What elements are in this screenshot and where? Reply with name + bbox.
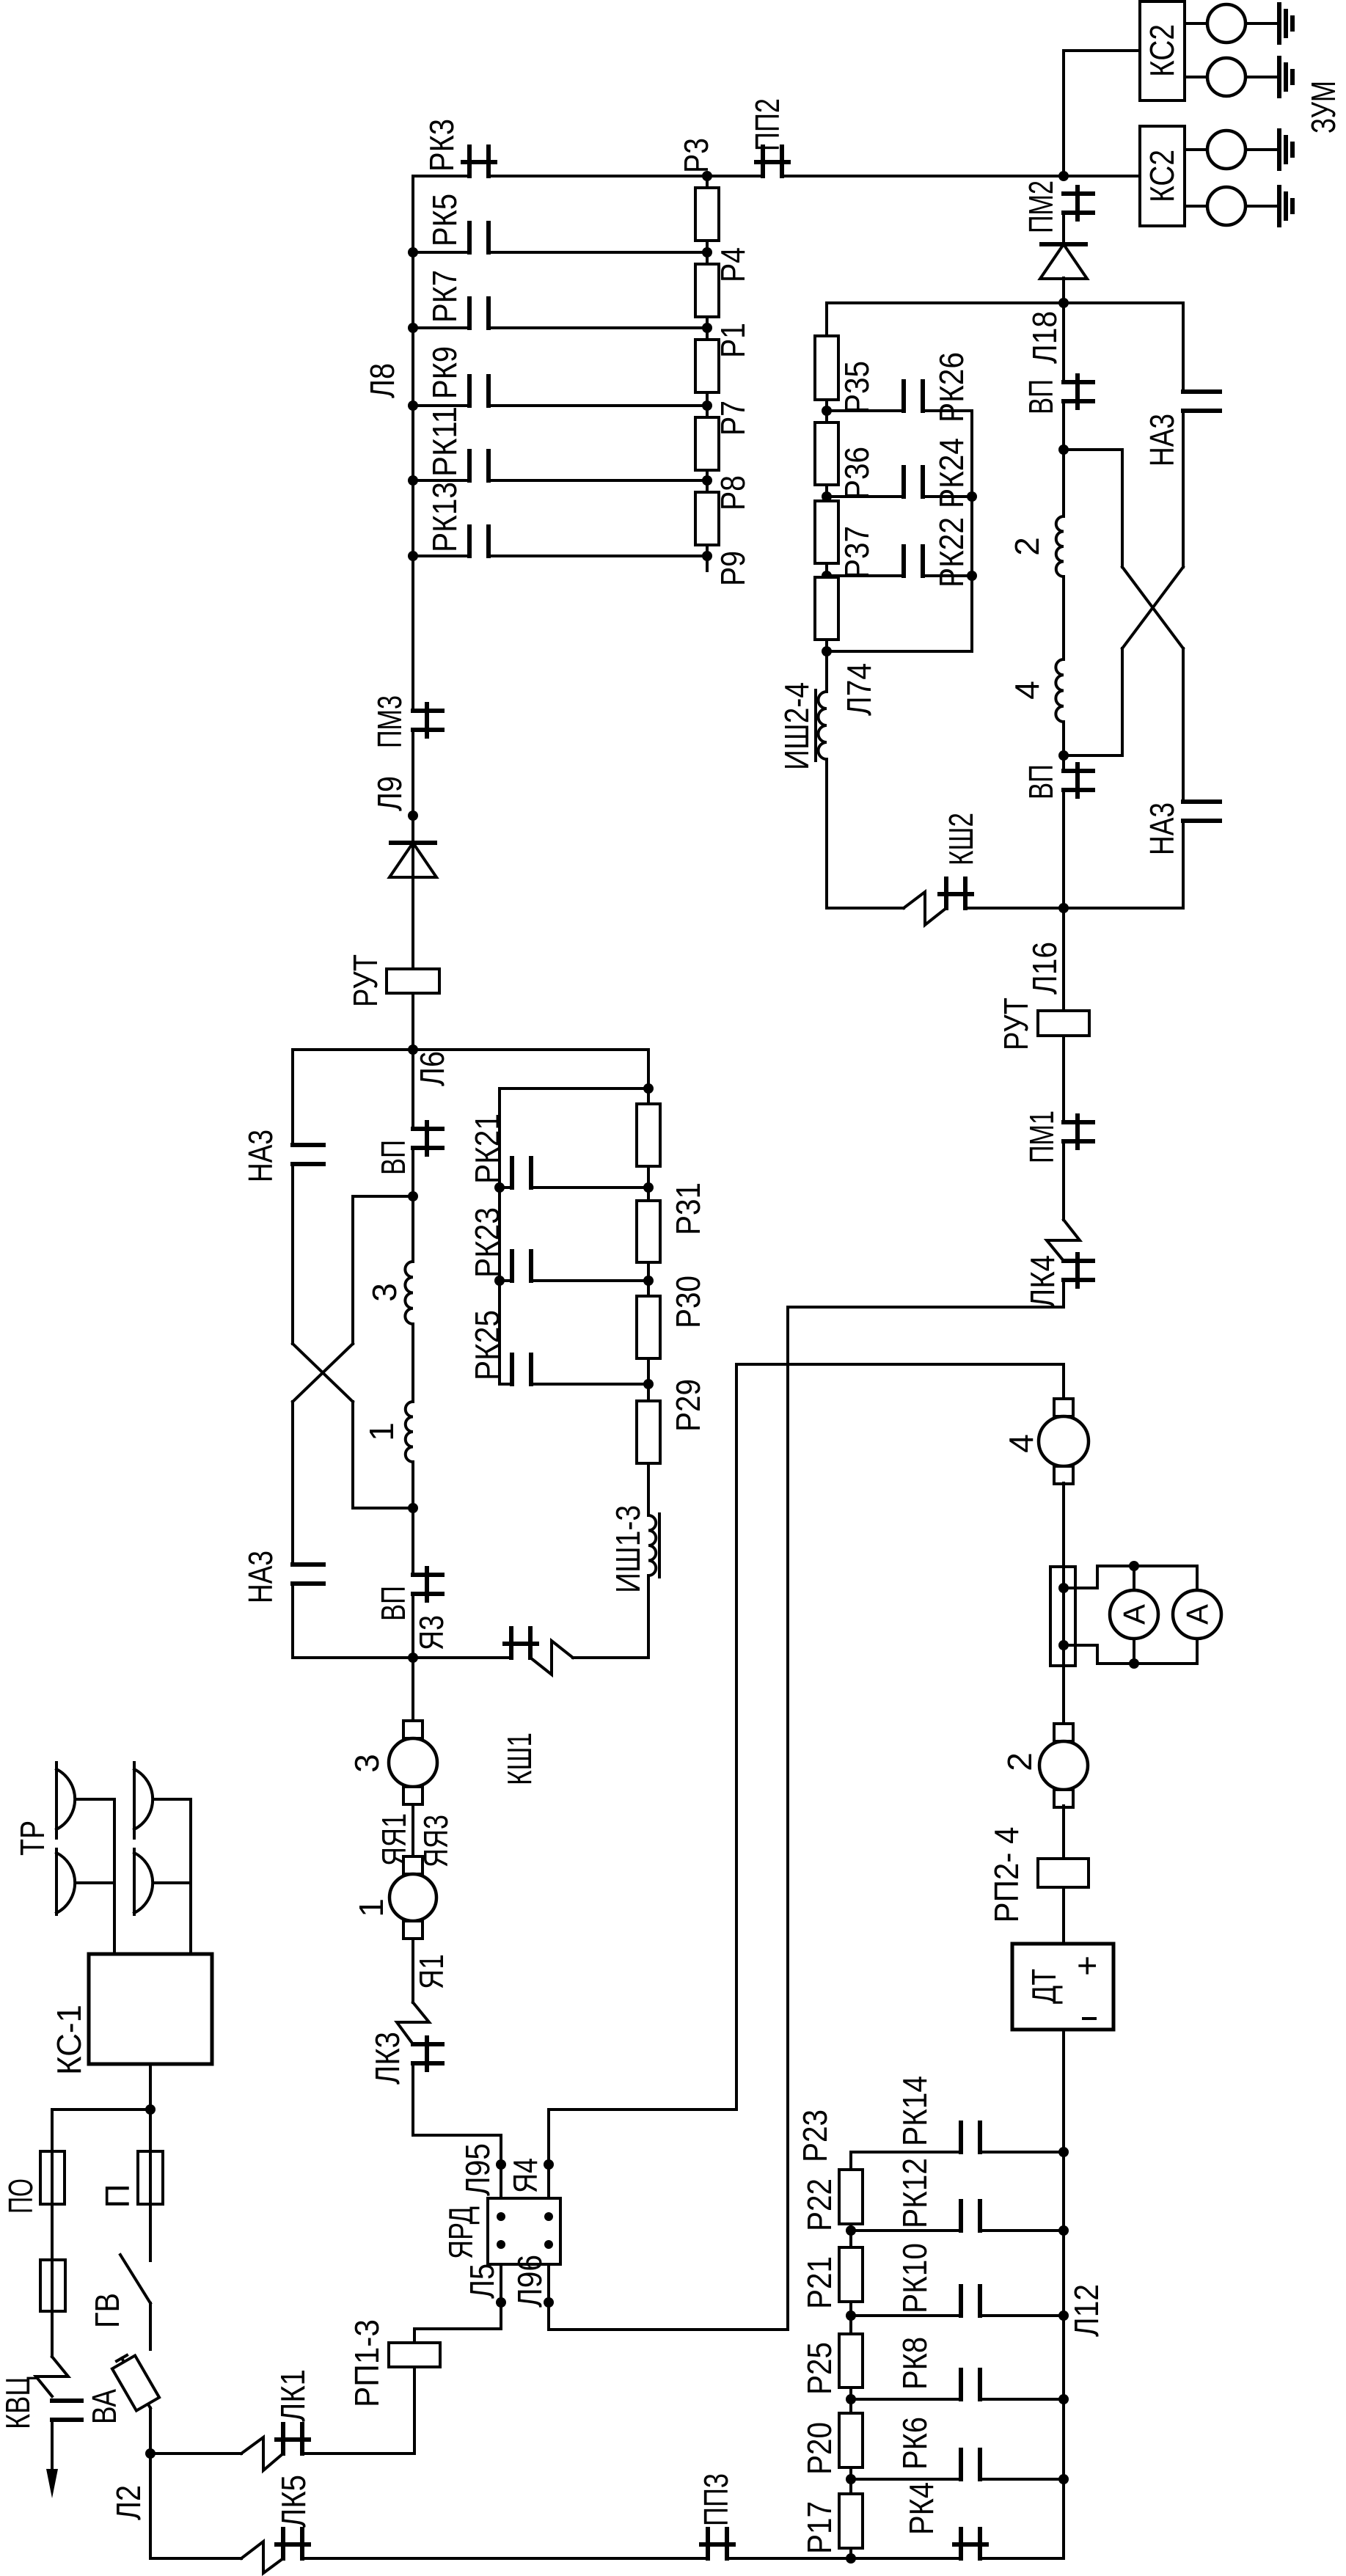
svg-text:4: 4 xyxy=(1002,1434,1040,1453)
svg-text:Л9: Л9 xyxy=(370,776,409,811)
svg-text:НА3: НА3 xyxy=(1143,802,1181,855)
wire ТР bus right xyxy=(189,1799,192,1954)
breaker ВА blade xyxy=(122,2358,150,2408)
node ammeter rail bottom xyxy=(1129,1658,1139,1669)
node РК22 rail xyxy=(967,571,977,581)
wire РК23 row xyxy=(500,1279,512,1282)
current collector ТР bow xyxy=(134,1769,153,1829)
ground xyxy=(1277,131,1281,169)
ground xyxy=(1277,58,1281,96)
wire РК26 right rail xyxy=(923,411,972,651)
wire bus Л8 top corner to РК3 xyxy=(413,176,469,711)
fuse П xyxy=(138,2151,163,2204)
contact РК25 (open) xyxy=(510,1355,514,1384)
wire chain link xyxy=(825,563,828,577)
svg-text:ПО: ПО xyxy=(1,2178,40,2214)
contact ПМ3 (closed) xyxy=(413,709,442,713)
svg-text:Р9: Р9 xyxy=(714,551,752,586)
contact РК11 (open) xyxy=(467,451,472,480)
svg-text:ИШ2-4: ИШ2-4 xyxy=(778,682,816,770)
svg-text:Р22: Р22 xyxy=(800,2178,838,2231)
contact РК7 (open) xyxy=(467,299,472,328)
inductive shunt ИШ1-3 xyxy=(648,1515,656,1576)
wire chain top to РК14 xyxy=(851,2152,961,2170)
svg-text:РК7: РК7 xyxy=(425,270,464,323)
wire Л6 rail corner down to Р31 xyxy=(647,1050,650,1104)
signal lamp xyxy=(1207,187,1246,225)
svg-text:Р17: Р17 xyxy=(800,2501,838,2554)
contact ВП lower-left (closed) xyxy=(413,1573,442,1577)
resistor above Р35 xyxy=(815,336,838,400)
wire РУТ to ВП xyxy=(412,993,414,1129)
wire chain link xyxy=(849,2224,852,2247)
wire chain link xyxy=(849,2467,852,2494)
wire ТР bow to bus xyxy=(153,1881,191,1884)
svg-text:Р3: Р3 xyxy=(677,138,715,173)
node Р7 xyxy=(702,400,712,411)
wire ПП2 to КС2 node xyxy=(782,175,1064,178)
wire РК8 to Л12 xyxy=(980,2398,1064,2401)
contact РК6 (open) xyxy=(959,2450,963,2479)
svg-text:Р30: Р30 xyxy=(669,1276,707,1328)
contact ЛК4 (closed) xyxy=(1064,1259,1093,1263)
svg-text:А: А xyxy=(1117,1604,1152,1625)
svg-text:Р20: Р20 xyxy=(800,2422,838,2475)
wire КС2 to lamp xyxy=(1185,148,1207,151)
breaker ВА body xyxy=(112,2355,159,2410)
current collector ТР bow xyxy=(56,1853,75,1913)
svg-text:РУТ: РУТ xyxy=(346,954,384,1007)
resistor Р1-Р7 xyxy=(695,340,719,392)
wire РК21 row xyxy=(500,1186,512,1189)
svg-text:ВП: ВП xyxy=(374,1586,412,1621)
wire down to ПО xyxy=(51,2110,54,2151)
svg-text:ЛК3: ЛК3 xyxy=(368,2032,406,2085)
coil РУТ right (relay) xyxy=(1038,1011,1089,1036)
wire chain link xyxy=(849,2302,852,2334)
svg-text:РК9: РК9 xyxy=(425,346,464,399)
svg-text:Л96: Л96 xyxy=(511,2255,549,2308)
field coil 3 xyxy=(405,1262,413,1324)
wire through shunt xyxy=(1062,1567,1065,1666)
wire РК12 to Л12 xyxy=(980,2229,1064,2232)
wire РК5 to resistor chain xyxy=(489,251,707,254)
wire РК6 to Л12 xyxy=(980,2478,1064,2481)
wire ВП to coil 3 xyxy=(412,1149,414,1262)
wire НА3 to crossover xyxy=(1182,411,1185,567)
wire НА3 upper branch xyxy=(291,1050,294,1145)
contact НА3 upper-right (open) xyxy=(1183,389,1220,394)
svg-text:3: 3 xyxy=(365,1283,403,1302)
contact КШ1 (closed) xyxy=(509,1628,513,1658)
wire chain link xyxy=(706,392,709,417)
node РК6 on Л12 xyxy=(1058,2474,1069,2484)
wire РК9 to resistor chain xyxy=(489,404,707,407)
wire РК25 row xyxy=(500,1383,512,1386)
wire РК10 to Л12 xyxy=(980,2314,1064,2317)
svg-text:КС2: КС2 xyxy=(1143,24,1181,77)
svg-text:ВА: ВА xyxy=(85,2389,123,2424)
wire Л2 down to bottom bus xyxy=(150,2454,241,2558)
wire РК24 to rail xyxy=(923,495,972,498)
resistor Р35-Р36 xyxy=(815,422,838,485)
wire П to ГВ xyxy=(149,2204,152,2261)
node dot on bus Л8 xyxy=(408,551,418,561)
arrow to ground (КВЦ) xyxy=(46,2469,58,2498)
svg-text:НА3: НА3 xyxy=(1143,414,1181,466)
motor armature 4 xyxy=(1054,1399,1073,1416)
svg-text:Р37: Р37 xyxy=(838,526,876,579)
zigzag arc mark ЛК4 xyxy=(1047,1220,1080,1261)
resistor Р4-Р1 xyxy=(695,264,719,317)
node РК12 on Л12 xyxy=(1058,2225,1069,2236)
wire РК11 to resistor chain xyxy=(489,479,707,482)
node Л16 xyxy=(1058,903,1069,913)
wire Л18 rail corner down xyxy=(825,303,828,336)
signal lamp xyxy=(1207,131,1246,169)
node below coil 4 xyxy=(1058,750,1069,761)
contact РК13 (open) xyxy=(467,527,472,556)
resistor Р22 xyxy=(839,2170,863,2224)
resistor below Р37 xyxy=(815,577,838,640)
field coil 4 xyxy=(1056,659,1064,722)
zigzag arc mark ЛК1 xyxy=(241,2437,283,2470)
svg-text:ПП3: ПП3 xyxy=(697,2473,735,2526)
svg-text:Л8: Л8 xyxy=(363,363,401,398)
wire through fuse ПО xyxy=(51,2151,54,2204)
label minus xyxy=(1083,2017,1095,2020)
wire lamp to ground xyxy=(1246,76,1279,78)
wire НА3 lower to Л16 rail xyxy=(1064,821,1183,908)
svg-text:РУТ: РУТ xyxy=(997,998,1035,1050)
wire Л18 rail xyxy=(827,301,1183,304)
wire branch to ПО xyxy=(52,2108,150,2111)
node Р30 xyxy=(643,1276,654,1286)
svg-text:Р36: Р36 xyxy=(838,447,876,500)
wire chain end stub Р9 xyxy=(706,545,709,571)
zigzag arc mark ЛК3 xyxy=(397,2002,429,2044)
svg-text:Л16: Л16 xyxy=(1025,942,1064,995)
node Я4 xyxy=(544,2159,554,2170)
node Я3 xyxy=(408,1653,418,1663)
wire chain to ИШ1-3 xyxy=(647,1463,650,1515)
node dot on bus Л8 xyxy=(408,247,418,257)
wire КС2 to lamp xyxy=(1185,205,1207,208)
wire bus to РК11 xyxy=(413,479,469,482)
contact РК10 (open) xyxy=(959,2286,963,2316)
wire ЛК3 to Л95 xyxy=(413,2063,501,2165)
diode on Л18 branch xyxy=(1042,242,1086,246)
svg-text:РК6: РК6 xyxy=(896,2417,934,2470)
wire РК13 to resistor chain xyxy=(489,555,707,557)
node Л74 xyxy=(822,646,832,656)
svg-text:Р8: Р8 xyxy=(714,475,752,511)
node Р25 xyxy=(846,2394,856,2404)
svg-text:3: 3 xyxy=(348,1754,386,1773)
node Л2 xyxy=(145,2448,156,2459)
svg-text:ВП: ВП xyxy=(374,1140,412,1175)
core line ИШ2-4 xyxy=(814,690,817,761)
wire Л95 into ЯРД xyxy=(500,2165,502,2198)
svg-text:КС2: КС2 xyxy=(1143,150,1181,202)
svg-text:А: А xyxy=(1180,1604,1215,1625)
wire ВП to Л16 xyxy=(1062,790,1065,1011)
svg-text:РК5: РК5 xyxy=(425,194,464,246)
svg-text:Л95: Л95 xyxy=(458,2143,497,2196)
wire bus to РК5 xyxy=(413,251,469,254)
wire chain link xyxy=(849,2387,852,2413)
svg-text:РК10: РК10 xyxy=(896,2243,934,2313)
contact ПП2 (closed) xyxy=(761,147,765,176)
svg-text:Я1: Я1 xyxy=(412,1954,450,1989)
wire РК22 to rail xyxy=(923,574,972,577)
wire ИШ2-4 to КШ2 xyxy=(827,759,904,908)
svg-text:РК4: РК4 xyxy=(902,2482,940,2535)
current collector ТР bow xyxy=(56,1769,75,1829)
svg-text:Р7: Р7 xyxy=(714,400,752,436)
contact НА3 lower-left (open) xyxy=(293,1562,323,1567)
wire КВЦ to arrow xyxy=(51,2420,54,2470)
wire chain link xyxy=(849,2548,852,2558)
wire lamp to ground xyxy=(1246,22,1279,25)
wire motor2 to РП2-4 xyxy=(1062,1806,1065,1859)
signal lamp xyxy=(1207,4,1246,43)
node Л96 xyxy=(544,2297,554,2308)
wire КС2 to lamp xyxy=(1185,22,1207,25)
wire shunt to motor2 xyxy=(1062,1666,1065,1724)
contact РК14 (open) xyxy=(959,2123,963,2152)
wire crossover to НА3 lower xyxy=(291,1402,294,1565)
node ПП2/КС2 xyxy=(1058,171,1069,181)
wire РК26 row xyxy=(827,409,903,412)
svg-text:КС-1: КС-1 xyxy=(50,2005,88,2075)
zigzag arc mark КВЦ xyxy=(36,2357,68,2396)
resistor Р36-Р37 xyxy=(815,501,838,563)
wire Я3 to КШ1 xyxy=(413,1656,511,1659)
contact ПМ1 (closed) xyxy=(1064,1120,1093,1124)
terminal dot ЯРД xyxy=(497,2212,505,2221)
wire chain link xyxy=(706,470,709,492)
wire Я4 riser xyxy=(549,1364,1064,2165)
resistor Р17 xyxy=(839,2494,863,2548)
knife switch ГВ blade xyxy=(120,2255,150,2303)
node Р9 xyxy=(702,551,712,561)
wire chain link xyxy=(647,1166,650,1201)
wire between coils xyxy=(412,1324,414,1402)
contact РК23 (open) xyxy=(510,1251,514,1281)
diode on Л9 branch xyxy=(391,841,435,845)
resistor Р3-Р4 xyxy=(695,188,719,241)
node РК14 on Л12 xyxy=(1058,2147,1069,2157)
node Р22 xyxy=(846,2225,856,2236)
wire resistor chain link xyxy=(706,176,709,188)
svg-text:РК21: РК21 xyxy=(468,1113,506,1184)
wire Л2 to ЛК1 xyxy=(150,2452,241,2455)
signal lamp xyxy=(1207,58,1246,96)
svg-text:РК12: РК12 xyxy=(896,2158,934,2228)
contact НА3 upper-left (open) xyxy=(293,1143,323,1147)
wire РК14 to Л12 xyxy=(980,2151,1064,2154)
svg-text:НА3: НА3 xyxy=(241,1130,279,1182)
wire НА3 branch upper xyxy=(1182,303,1185,392)
motor armature 3 xyxy=(403,1721,423,1738)
svg-text:ПП2: ПП2 xyxy=(748,98,786,151)
current collector ТР pole xyxy=(133,1849,136,1914)
resistor Р8-Р9 xyxy=(695,492,719,545)
svg-text:ПМ3: ПМ3 xyxy=(370,695,409,748)
svg-text:ЗУМ: ЗУМ xyxy=(1304,81,1342,133)
wire ВП to coil 2 xyxy=(1062,401,1065,516)
contact РК5 (open) xyxy=(467,223,472,252)
svg-text:Р29: Р29 xyxy=(669,1379,707,1432)
wire ПМ3 to РУТ xyxy=(412,730,414,969)
node chain top xyxy=(643,1083,654,1094)
node РК24 rail xyxy=(967,491,977,502)
contact НА3 lower-right (open) xyxy=(1183,799,1220,804)
wire ИШ1-3 to КШ1 xyxy=(573,1576,648,1658)
svg-text:Л12: Л12 xyxy=(1067,2284,1105,2337)
node Р3 xyxy=(702,171,712,181)
node dot on bus Л8 xyxy=(408,475,418,486)
wire РУТ to ПМ1 xyxy=(1062,1036,1065,1122)
node Р36 xyxy=(822,491,832,502)
node Л9 xyxy=(408,811,418,821)
svg-text:ЛК5: ЛК5 xyxy=(274,2475,312,2528)
wire bus to РК7 xyxy=(413,326,469,329)
svg-text:Я3: Я3 xyxy=(412,1615,450,1650)
contact ЛК5 (closed) xyxy=(281,2529,285,2558)
zigzag arc mark КШ2 xyxy=(904,892,946,925)
contact ВП upper-left (closed) xyxy=(413,1127,442,1131)
resistor Р21 xyxy=(839,2247,863,2302)
wire РК2x bus xyxy=(498,1088,501,1384)
motor armature 2 xyxy=(1054,1724,1073,1741)
svg-text:Л6: Л6 xyxy=(413,1051,451,1086)
svg-text:Р21: Р21 xyxy=(800,2256,838,2309)
node Л6 xyxy=(408,1044,418,1055)
current collector ТР pole xyxy=(55,1763,58,1838)
wire НА3 to crossover xyxy=(291,1165,294,1344)
node Р17 on bus xyxy=(846,2553,856,2564)
wire РК8 row xyxy=(851,2398,961,2401)
svg-text:ДТ: ДТ xyxy=(1025,1969,1063,2004)
current collector ТР pole xyxy=(133,1763,136,1838)
node Р8 xyxy=(702,475,712,486)
wire ДТ down Л12 xyxy=(1062,2030,1065,2558)
wire shunt tap to ammeters bottom xyxy=(1064,1639,1197,1664)
resistor Р7-Р8 xyxy=(695,417,719,470)
wire between coils 2-4 xyxy=(1062,577,1065,659)
breaker ВА latch xyxy=(117,2355,127,2361)
coil РП2-4 (relay) xyxy=(1038,1859,1089,1887)
svg-text:Л74: Л74 xyxy=(840,663,878,716)
svg-text:ТР: ТР xyxy=(13,1821,51,1856)
wire ПМ2 to diode xyxy=(1062,213,1065,244)
fuse on КВЦ branch xyxy=(40,2260,65,2311)
inductive shunt ИШ2-4 xyxy=(819,692,827,759)
field coil 2 xyxy=(1056,516,1064,577)
terminal dot ЯРД xyxy=(497,2240,505,2249)
node Р37 xyxy=(822,571,832,581)
svg-text:1: 1 xyxy=(352,1898,390,1917)
crossover X right xyxy=(1122,567,1183,648)
wire fuse to КВЦ xyxy=(51,2311,54,2357)
resistor Р20 xyxy=(839,2413,863,2467)
wire motor4 to shunt xyxy=(1062,1483,1065,1567)
wire crossover to НА3 lower xyxy=(1182,648,1185,802)
svg-text:П: П xyxy=(98,2184,136,2208)
wire chain link xyxy=(706,241,709,264)
svg-text:Р35: Р35 xyxy=(838,361,876,414)
wire РК7 to resistor chain xyxy=(489,326,707,329)
svg-text:РК14: РК14 xyxy=(896,2076,934,2146)
motor armature 1 xyxy=(403,1856,423,1874)
svg-text:Р1: Р1 xyxy=(714,323,752,358)
node Р21 xyxy=(846,2310,856,2321)
wire РК21 to node Р31 xyxy=(531,1186,648,1189)
svg-text:КВЦ: КВЦ xyxy=(0,2376,37,2429)
wire Л6 rail xyxy=(293,1048,648,1051)
wire ВП2 to motor 3 xyxy=(412,1595,414,1721)
svg-text:ПМ1: ПМ1 xyxy=(1023,1110,1061,1163)
wire motor1 to ЛК3 xyxy=(412,1940,414,2002)
node below coil 1 xyxy=(408,1503,418,1513)
svg-text:Л18: Л18 xyxy=(1025,311,1064,364)
wire diode to Л18 xyxy=(1062,278,1065,303)
svg-text:Р25: Р25 xyxy=(800,2342,838,2395)
wire chain link xyxy=(825,400,828,422)
terminal dot ЯРД xyxy=(544,2240,553,2249)
wire bus to РК13 xyxy=(413,555,469,557)
contact РК8 (open) xyxy=(959,2370,963,2399)
wire НА3 lower to Я3 rail xyxy=(293,1584,413,1658)
resistor Р25 xyxy=(839,2334,863,2387)
wire Л16 rail left xyxy=(965,907,1064,910)
wire lamp to ground xyxy=(1246,148,1279,151)
zigzag arc mark КШ1 xyxy=(530,1641,573,1675)
contact ЛК1 (closed) xyxy=(281,2424,285,2454)
reverser ЯРД xyxy=(488,2198,560,2264)
svg-text:Р23: Р23 xyxy=(796,2110,834,2162)
contact ПМ2 (closed) xyxy=(1064,191,1093,196)
coil РП1-3 (relay) xyxy=(389,2343,440,2367)
svg-text:РК25: РК25 xyxy=(468,1310,506,1380)
svg-text:КШ1: КШ1 xyxy=(500,1732,538,1785)
resistor below Р29 xyxy=(637,1401,660,1463)
contact РК9 (open) xyxy=(467,376,472,406)
lamp box КС2 upper xyxy=(1140,1,1185,100)
svg-text:Л2: Л2 xyxy=(109,2485,147,2520)
wire Л74 to ИШ2-4 xyxy=(825,640,828,692)
current transducer ДТ xyxy=(1012,1944,1113,2030)
wire РК12 row xyxy=(851,2229,961,2232)
wire ammeter1 riser bottom xyxy=(1133,1639,1135,1664)
node ammeter rail top xyxy=(1129,1561,1139,1571)
node below КС-1 xyxy=(145,2104,156,2115)
svg-text:ИШ1-3: ИШ1-3 xyxy=(609,1505,647,1593)
wire РК6 row xyxy=(851,2478,961,2481)
core line ИШ1-3 xyxy=(658,1514,661,1577)
wire РК24 row xyxy=(827,495,903,498)
node Р1 xyxy=(702,323,712,333)
node Р29 xyxy=(643,1379,654,1389)
ammeter shunt xyxy=(1050,1567,1075,1666)
node dot on bus Л8 xyxy=(408,400,418,411)
wire shunt tap to ammeters top xyxy=(1064,1566,1197,1590)
ground xyxy=(1277,187,1281,225)
wire ЯЯ between motors xyxy=(412,1807,414,1856)
shunt tap lower xyxy=(1058,1640,1069,1650)
